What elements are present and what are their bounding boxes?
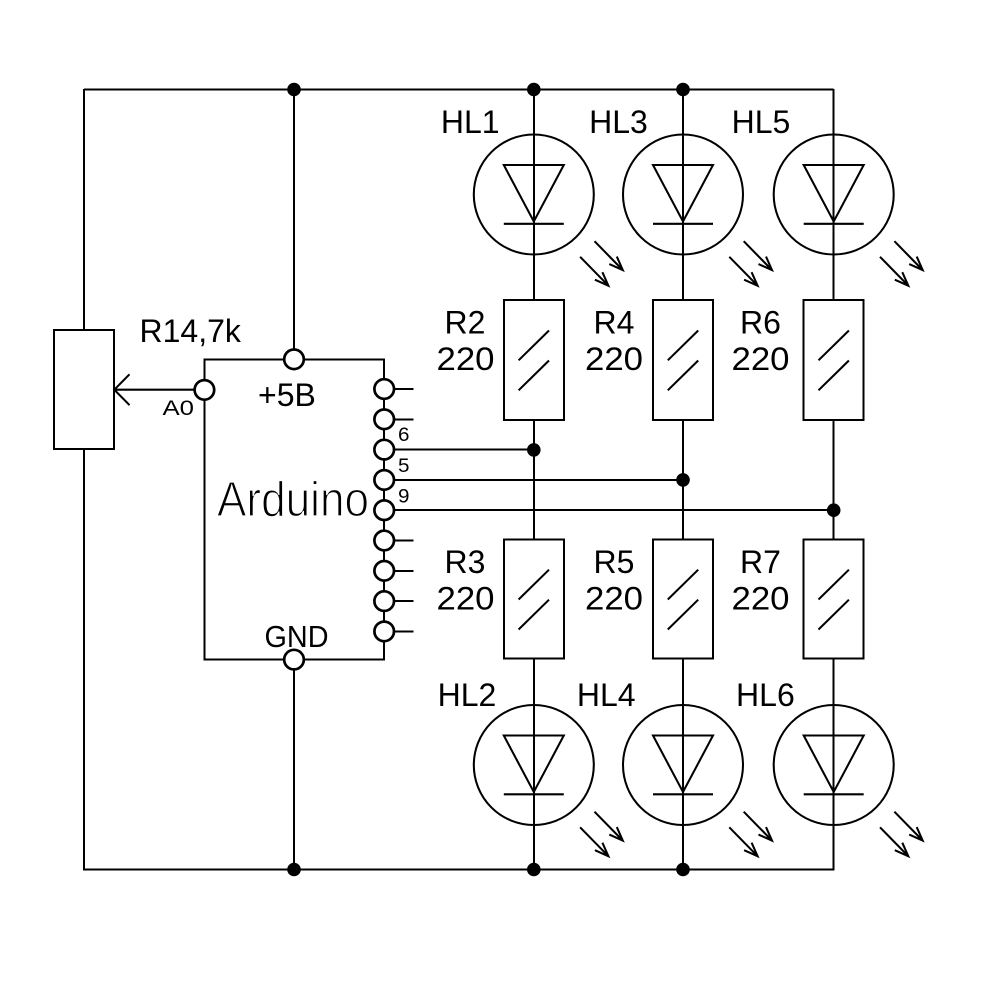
wire pin 6 to node A bbox=[394, 449, 534, 451]
svg-text:9: 9 bbox=[398, 486, 410, 507]
junction dot +5V top bus bbox=[287, 83, 301, 97]
svg-text:HL2: HL2 bbox=[438, 677, 497, 713]
wire HL5 column top bbox=[833, 89, 835, 300]
svg-text:HL1: HL1 bbox=[441, 104, 500, 140]
pin stub 1 bbox=[394, 388, 414, 390]
resistor R4 stripes bbox=[668, 331, 698, 391]
pin circle 9 bbox=[374, 500, 394, 520]
svg-text:220: 220 bbox=[585, 581, 643, 617]
svg-text:R6: R6 bbox=[740, 304, 781, 340]
pin stub 9 bbox=[394, 630, 414, 632]
LED HL3 bbox=[623, 135, 772, 286]
resistor R6 body bbox=[804, 300, 864, 420]
pin circle 2 bbox=[374, 410, 394, 430]
svg-text:HL4: HL4 bbox=[577, 677, 636, 713]
svg-text:Arduino: Arduino bbox=[217, 473, 369, 527]
wire R4 to R5 bbox=[682, 420, 684, 540]
potentiometer R1 body bbox=[54, 330, 114, 449]
potentiometer R1 wiper arrow bbox=[114, 374, 195, 405]
wire R6 to R7 bbox=[833, 420, 835, 540]
svg-text:HL5: HL5 bbox=[732, 104, 791, 140]
wire HL3 column top bbox=[682, 90, 684, 300]
resistor R7 body bbox=[804, 540, 864, 659]
junction dot node B bbox=[676, 473, 690, 487]
resistor R4 body bbox=[653, 300, 713, 420]
wire +5V from bus to Arduino bbox=[293, 90, 295, 360]
wire top +5V bus bbox=[84, 89, 834, 91]
svg-text:R7: R7 bbox=[740, 544, 781, 580]
junction dot col2 bottom bus bbox=[676, 863, 690, 877]
pin circle 6 bbox=[374, 440, 394, 460]
svg-text:220: 220 bbox=[585, 341, 643, 377]
arduino U1 body bbox=[204, 359, 384, 659]
junction dot GND bottom bus bbox=[287, 863, 301, 877]
junction dot node A bbox=[527, 443, 541, 457]
junction dot node C bbox=[827, 503, 841, 517]
pin circle 6b bbox=[374, 531, 394, 551]
LED HL6 bbox=[774, 705, 923, 856]
svg-text:R2: R2 bbox=[445, 304, 486, 340]
wire left bus to R1 top bbox=[83, 89, 85, 331]
wire pin 9 to node C bbox=[394, 509, 834, 511]
junction dot col2 top bus bbox=[676, 83, 690, 97]
pin circle 9b bbox=[374, 622, 394, 642]
svg-text:R14,7k: R14,7k bbox=[140, 313, 242, 349]
pin stub 8 bbox=[394, 600, 414, 602]
LED HL2 bbox=[474, 705, 623, 856]
wire R7 to HL6 to GND bus bbox=[833, 658, 835, 870]
svg-text:5: 5 bbox=[398, 456, 410, 477]
wire pin 5 to node B bbox=[394, 479, 683, 481]
LED HL1 bbox=[474, 135, 623, 286]
pin stub 7 bbox=[394, 570, 414, 572]
svg-text:GND: GND bbox=[265, 619, 329, 654]
wire HL1 column top bbox=[533, 90, 535, 300]
resistor R3 body bbox=[504, 540, 564, 659]
resistor R3 stripes bbox=[519, 570, 549, 630]
junction dot col1 bottom bus bbox=[527, 863, 541, 877]
pin circle 1 bbox=[374, 379, 394, 399]
svg-text:6: 6 bbox=[398, 425, 410, 446]
svg-text:R3: R3 bbox=[445, 544, 486, 580]
resistor R7 stripes bbox=[819, 570, 849, 630]
svg-text:A0: A0 bbox=[163, 397, 195, 420]
wire R3 to HL2 to GND bus bbox=[533, 658, 535, 869]
wire R5 to HL4 to GND bus bbox=[682, 658, 684, 869]
junction dot col1 top bus bbox=[527, 83, 541, 97]
resistor R2 body bbox=[504, 300, 564, 420]
svg-text:R4: R4 bbox=[594, 304, 635, 340]
resistor R6 stripes bbox=[819, 331, 849, 391]
resistor R5 stripes bbox=[668, 570, 698, 630]
wire R2 to R3 bbox=[533, 420, 535, 540]
svg-text:HL6: HL6 bbox=[736, 677, 795, 713]
wire GND from Arduino to bottom bus bbox=[293, 660, 295, 870]
svg-text:R5: R5 bbox=[594, 544, 635, 580]
wire R1 bottom to GND bus bbox=[83, 449, 85, 871]
pin circle 7 bbox=[374, 561, 394, 581]
svg-text:+5B: +5B bbox=[258, 377, 316, 413]
pin GND bbox=[284, 650, 304, 670]
resistor R2 stripes bbox=[519, 331, 549, 391]
resistor R5 body bbox=[653, 540, 713, 659]
pin stub 6 bbox=[394, 540, 414, 542]
svg-text:HL3: HL3 bbox=[589, 104, 648, 140]
pin circle 5 bbox=[374, 470, 394, 490]
svg-text:220: 220 bbox=[437, 581, 495, 617]
pin +5B bbox=[284, 350, 304, 370]
LED HL5 bbox=[774, 135, 923, 286]
wire bottom GND bus bbox=[84, 869, 834, 871]
svg-text:220: 220 bbox=[437, 341, 495, 377]
svg-text:220: 220 bbox=[732, 581, 790, 617]
LED HL4 bbox=[623, 705, 772, 856]
pin stub 2 bbox=[394, 418, 414, 420]
svg-text:220: 220 bbox=[732, 341, 790, 377]
pin circle 8 bbox=[374, 591, 394, 611]
pin A0 bbox=[195, 380, 215, 400]
